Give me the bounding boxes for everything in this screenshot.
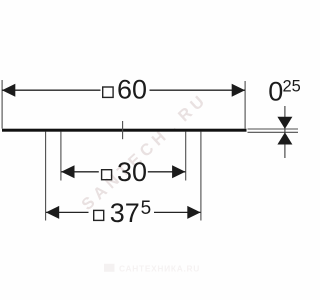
arrow left of dim 30 — [61, 165, 74, 178]
thickness arrow pointing up — [277, 132, 292, 144]
dimension 30 line right segment — [148, 171, 186, 173]
arrow left of dim 37.5 — [46, 206, 59, 219]
arrow left of dim 60 — [2, 84, 15, 97]
extension line right of dim 60 — [244, 81, 246, 129]
extension line left inner (dim 30) — [60, 132, 62, 181]
dimension 60 line right segment — [150, 89, 246, 91]
svg-text:30: 30 — [117, 157, 147, 187]
dimension 30 line left segment — [61, 171, 99, 173]
square symbol of dim 60 — [103, 87, 113, 97]
svg-text:САНТЕХНИКА.RU: САНТЕХНИКА.RU — [119, 263, 200, 273]
svg-text:60: 60 — [117, 74, 147, 104]
dimension 37.5 line right segment — [154, 211, 201, 213]
thickness extension line top — [248, 128, 299, 130]
arrow right of dim 37.5 — [187, 206, 200, 219]
watermark bottom logo text — [104, 263, 200, 273]
extension line right outer (dim 37.5) — [200, 132, 202, 221]
thickness dimension vertical line — [284, 106, 286, 158]
bar (product side profile) — [2, 129, 247, 132]
svg-text:5: 5 — [141, 198, 152, 219]
extension line left of dim 60 — [1, 80, 3, 129]
square symbol of dim 30 — [102, 170, 112, 180]
svg-text:25: 25 — [283, 77, 301, 95]
watermark SANTECH.RU diagonal — [78, 90, 211, 214]
arrow right of dim 60 — [232, 84, 245, 97]
dimension 60 line left segment — [2, 89, 101, 91]
arrow right of dim 30 — [172, 165, 185, 178]
center tick on bar — [122, 121, 124, 139]
svg-text:37: 37 — [110, 198, 140, 228]
thickness arrow pointing down — [277, 117, 292, 129]
dimension 37.5 line left segment — [46, 211, 89, 213]
square symbol of dim 37.5 — [94, 210, 104, 220]
extension line left outer (dim 37.5) — [45, 132, 47, 221]
svg-text:0: 0 — [268, 76, 283, 106]
extension line right inner (dim 30) — [185, 132, 187, 181]
thickness extension line bottom — [248, 131, 299, 133]
